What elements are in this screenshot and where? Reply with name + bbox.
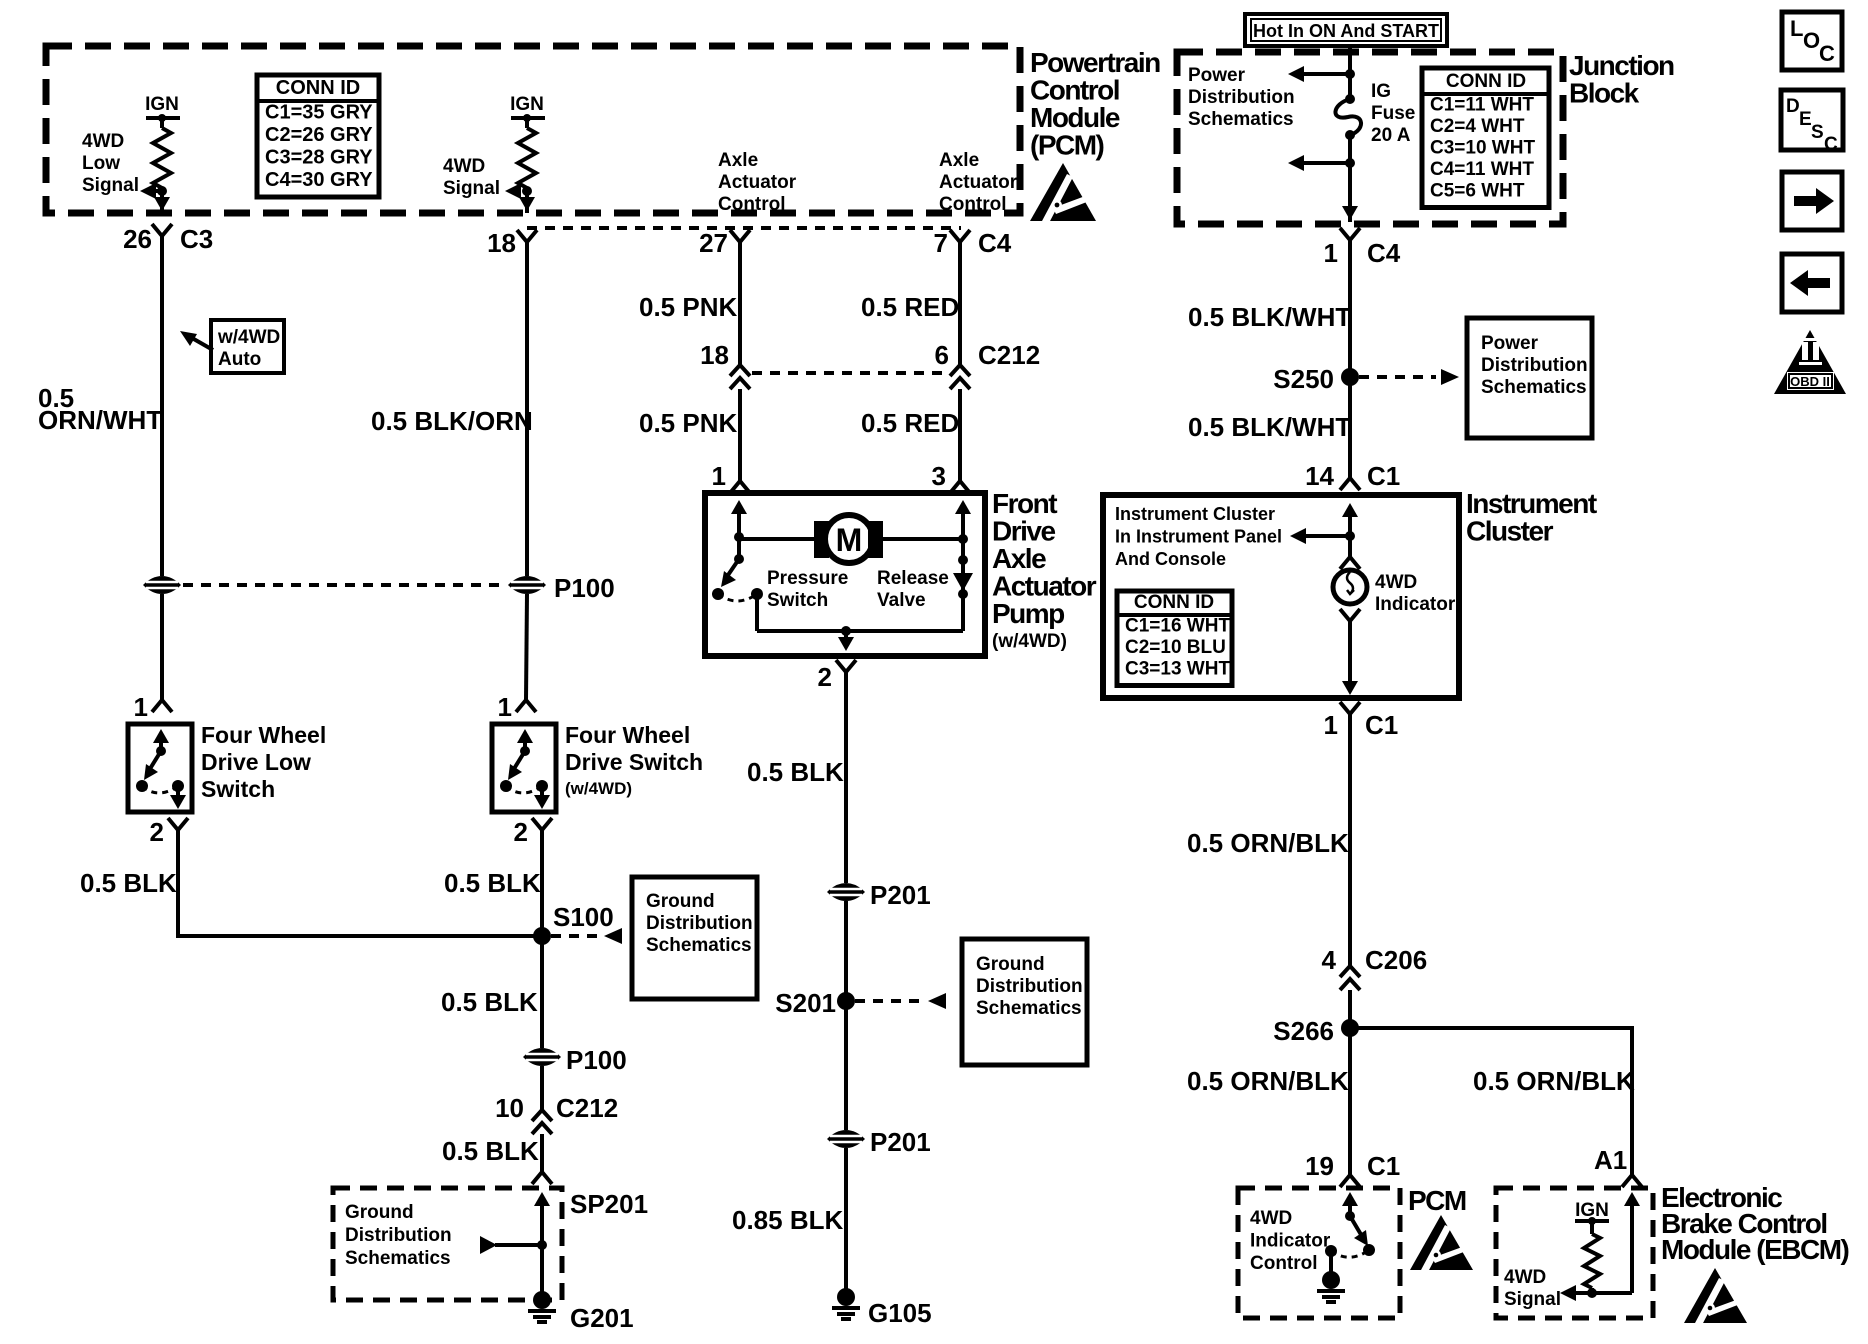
svg-text:Axle: Axle [718, 150, 758, 171]
icon arrow-right box [1782, 172, 1842, 230]
ground G201 [533, 1291, 551, 1309]
table CONN ID (Junction Block) [1422, 68, 1549, 208]
wire S266 branch to EBCM A1 [1350, 1028, 1632, 1175]
svg-text:Fuse: Fuse [1371, 103, 1415, 124]
svg-text:Control: Control [1250, 1253, 1318, 1274]
resistor 4WD Signal pull-up (EBCM) [1590, 1221, 1594, 1234]
svg-text:S: S [1811, 122, 1824, 143]
splice S201 [837, 992, 855, 1010]
wire 4WD Signal arrow (EBCM) [1560, 1285, 1576, 1301]
svg-text:Four Wheel: Four Wheel [565, 722, 690, 748]
pin 7 C4 connector [950, 230, 970, 242]
svg-text:Block: Block [1569, 78, 1640, 109]
svg-text:Actuator: Actuator [718, 172, 797, 193]
module Junction Block dashed box [1177, 52, 1563, 224]
wire C206 to S266 [1348, 990, 1352, 1175]
svg-text:1: 1 [1324, 710, 1338, 740]
module Instrument Cluster box [1103, 495, 1459, 698]
wire branch arrow upper [1345, 69, 1355, 79]
connector internal (cluster) [1340, 557, 1360, 569]
wire cluster down-arrow to pin 1 [1348, 675, 1352, 689]
svg-text:Schematics: Schematics [345, 1248, 451, 1269]
svg-text:2: 2 [818, 662, 832, 692]
svg-text:w/4WD: w/4WD [217, 327, 280, 348]
wire 0.5 BLK pump to P201 [844, 672, 848, 883]
svg-text:(w/4WD): (w/4WD) [565, 779, 632, 798]
svg-text:(w/4WD): (w/4WD) [992, 631, 1067, 652]
module EBCM dashed box [1496, 1188, 1653, 1318]
svg-text:0.5 PNK: 0.5 PNK [639, 408, 737, 438]
wire S250 dashed reference arrow [1359, 375, 1436, 379]
svg-text:Low: Low [82, 153, 120, 174]
svg-text:1: 1 [712, 461, 726, 491]
wire 0.5 ORN/WHT pin 26 to P100 [160, 236, 164, 576]
icon arrow-left box [1782, 254, 1842, 312]
svg-text:Distribution: Distribution [976, 976, 1083, 997]
svg-text:C3=28 GRY: C3=28 GRY [265, 147, 373, 169]
wire P100 to switch pin 1 (right) [526, 594, 527, 700]
svg-text:1: 1 [134, 692, 148, 722]
svg-text:S266: S266 [1273, 1016, 1334, 1046]
svg-text:Ground: Ground [646, 891, 715, 912]
svg-text:C2=10 BLU: C2=10 BLU [1125, 637, 1226, 658]
svg-text:0.5 BLK/WHT: 0.5 BLK/WHT [1188, 412, 1351, 442]
wire resistor to pin 18 [525, 188, 529, 213]
pin 1 C1 connector (cluster) [1340, 702, 1360, 714]
svg-text:Module: Module [1030, 102, 1120, 133]
table CONN ID (cluster) [1117, 591, 1232, 686]
svg-text:3: 3 [932, 461, 946, 491]
svg-text:Auto: Auto [218, 349, 261, 370]
pin 27 connector [730, 230, 750, 242]
svg-text:Schematics: Schematics [976, 998, 1082, 1019]
icon OBD II triangle [1774, 330, 1846, 394]
lamp 4WD Indicator [1348, 569, 1352, 571]
svg-text:Drive Switch: Drive Switch [565, 749, 703, 775]
svg-text:19: 19 [1305, 1151, 1334, 1181]
wire 0.5 ORN/BLK cluster to C206 [1348, 714, 1352, 966]
wire 0.5 BLK switch 2 to S100 [178, 830, 535, 936]
svg-text:C: C [1819, 41, 1835, 66]
svg-text:C206: C206 [1365, 945, 1427, 975]
svg-text:C1=16 WHT: C1=16 WHT [1125, 616, 1230, 637]
svg-text:18: 18 [487, 228, 516, 258]
svg-text:4: 4 [1322, 945, 1337, 975]
svg-text:1: 1 [1324, 238, 1338, 268]
svg-text:C3=13 WHT: C3=13 WHT [1125, 659, 1230, 680]
wire resistor to pin 26 [160, 188, 164, 213]
wire 0.5 RED C212 to pump pin 3 [958, 389, 962, 481]
svg-text:27: 27 [699, 228, 728, 258]
svg-text:4WD: 4WD [1504, 1267, 1546, 1288]
wire P100 dashed pair link [183, 583, 506, 587]
svg-text:P201: P201 [870, 1127, 931, 1157]
module Front Drive Axle Actuator Pump box [705, 493, 985, 656]
module PCM (Powertrain Control Module) dashed box [46, 46, 1020, 213]
resistor 4WD Signal pull-up [525, 118, 529, 128]
svg-text:PCM: PCM [1408, 1185, 1466, 1216]
wire S100 to P100 [540, 995, 544, 1048]
svg-text:Axle: Axle [939, 150, 979, 171]
module PCM (4WD Indicator Control) dashed box [1238, 1188, 1400, 1318]
svg-text:C4: C4 [1367, 238, 1401, 268]
svg-text:C2=4 WHT: C2=4 WHT [1430, 116, 1525, 137]
node IGN (left, pin 26 circuit) [146, 116, 180, 120]
svg-text:4WD: 4WD [1375, 572, 1417, 593]
svg-text:A1: A1 [1594, 1145, 1627, 1175]
svg-text:4WD: 4WD [443, 156, 485, 177]
wire 0.5 RED pin 7 to C212 [958, 242, 962, 365]
svg-text:0.5 ORN/BLK: 0.5 ORN/BLK [1473, 1066, 1635, 1096]
fuse IG Fuse 20 A [1345, 94, 1355, 104]
svg-text:M: M [836, 522, 863, 558]
wire cluster pin 14 internal [1348, 509, 1352, 523]
svg-text:Valve: Valve [877, 590, 926, 611]
wire P100 to switch pin 1 [160, 594, 164, 700]
wire pump internal bottom [757, 629, 963, 633]
svg-text:10: 10 [495, 1093, 524, 1123]
wire w/4WD Auto arrow [192, 338, 213, 350]
pin 19 C1 connector (PCM) [1340, 1175, 1360, 1187]
svg-text:Indicator: Indicator [1250, 1231, 1331, 1252]
svg-text:CONN ID: CONN ID [1134, 592, 1214, 613]
pin 14 C1 connector [1340, 478, 1360, 490]
svg-text:And Console: And Console [1115, 549, 1226, 569]
svg-text:Signal: Signal [443, 178, 500, 199]
splice S250 [1341, 368, 1359, 386]
svg-text:Drive Low: Drive Low [201, 749, 311, 775]
svg-text:D: D [1786, 96, 1800, 117]
wire C212 dashed link [752, 371, 948, 375]
connector SP201 splice pack [532, 1172, 552, 1184]
svg-text:G201: G201 [570, 1303, 634, 1333]
wire 0.5 BLK/WHT pin1 C4 to S250 [1348, 240, 1352, 478]
svg-text:4WD: 4WD [82, 131, 124, 152]
wire down-arrow into pin 18 [525, 193, 529, 205]
svg-text:C212: C212 [978, 340, 1040, 370]
svg-text:Control: Control [718, 194, 786, 215]
svg-text:Release: Release [877, 568, 949, 589]
svg-text:7: 7 [934, 228, 948, 258]
splice S266 [1341, 1019, 1359, 1037]
svg-text:S100: S100 [553, 902, 614, 932]
svg-text:P100: P100 [566, 1045, 627, 1075]
svg-text:0.5 BLK: 0.5 BLK [80, 868, 177, 898]
wire S100 dashed reference arrow [551, 934, 600, 938]
svg-text:Ground: Ground [976, 954, 1045, 975]
svg-text:Distribution: Distribution [1481, 355, 1588, 376]
svg-text:Axle: Axle [992, 543, 1046, 574]
svg-text:C1=35 GRY: C1=35 GRY [265, 102, 373, 124]
svg-text:4WD: 4WD [1250, 1208, 1292, 1229]
svg-text:ORN/WHT: ORN/WHT [38, 405, 162, 435]
svg-text:0.5 ORN/BLK: 0.5 ORN/BLK [1187, 828, 1349, 858]
svg-text:18: 18 [700, 340, 729, 370]
resistor 4WD Low pull-up [160, 118, 164, 128]
switch 4WD indicator driver (PCM internal) [1348, 1198, 1352, 1210]
pin 2 connector (4WD Switch) [532, 818, 552, 830]
connector P201 grommet lower [827, 1130, 865, 1148]
pin 26 C3 connector [152, 224, 172, 236]
svg-text:0.5 RED: 0.5 RED [861, 408, 959, 438]
svg-text:Front: Front [992, 488, 1057, 519]
svg-text:Distribution: Distribution [1188, 87, 1295, 108]
svg-text:C3: C3 [180, 224, 213, 254]
svg-text:Cluster: Cluster [1466, 516, 1554, 547]
svg-text:C1: C1 [1367, 461, 1400, 491]
svg-text:IG: IG [1371, 81, 1391, 102]
wire switch pin 2 to S100 [540, 830, 544, 995]
svg-text:0.5 BLK: 0.5 BLK [747, 757, 844, 787]
svg-text:Indicator: Indicator [1375, 594, 1456, 615]
connector 6 C212 [950, 365, 970, 376]
connector P201 grommet upper [827, 883, 865, 901]
svg-text:0.5 BLK: 0.5 BLK [441, 987, 538, 1017]
connector internal below lamp (cluster) [1340, 609, 1360, 621]
pin 2 connector (pump) [836, 660, 856, 672]
svg-text:P100: P100 [554, 573, 615, 603]
ESD symbol PCM [1030, 163, 1096, 221]
svg-text:Switch: Switch [201, 776, 275, 802]
svg-text:C4=11 WHT: C4=11 WHT [1430, 159, 1534, 180]
svg-text:G105: G105 [868, 1298, 932, 1328]
svg-text:Four Wheel: Four Wheel [201, 722, 326, 748]
switch Four Wheel Drive Low Switch [128, 724, 192, 812]
wire EBCM A1 internal [1630, 1198, 1634, 1210]
wire 0.5 BLK/ORN pin 18 to P100 [525, 242, 529, 576]
svg-text:Power: Power [1481, 333, 1539, 354]
svg-text:C: C [1824, 134, 1838, 155]
wire 0.5 PNK C212 to pump pin 1 [738, 389, 742, 481]
wire cluster internal left arrow [1296, 534, 1350, 538]
pin 1 connector (4WD Low Switch) [152, 700, 172, 712]
svg-text:CONN ID: CONN ID [1446, 71, 1526, 92]
svg-text:Actuator: Actuator [939, 172, 1018, 193]
wire C212 to SP201 [540, 1134, 544, 1172]
ESD symbol PCM bottom [1410, 1215, 1473, 1270]
svg-text:0.5 BLK/ORN: 0.5 BLK/ORN [371, 406, 533, 436]
svg-text:Instrument: Instrument [1466, 488, 1597, 519]
svg-text:Signal: Signal [1504, 1289, 1561, 1310]
svg-text:Module (EBCM): Module (EBCM) [1661, 1234, 1849, 1265]
label w/4WD Auto callout box [211, 320, 284, 373]
wire pump up-arrow pin 3 [961, 506, 965, 520]
wire P201 to S201 [844, 901, 848, 1130]
svg-text:C1: C1 [1367, 1151, 1400, 1181]
svg-text:0.5 PNK: 0.5 PNK [639, 292, 737, 322]
pin 1 connector (4WD Switch) [516, 700, 536, 712]
wire 0.85 BLK P201 to G105 [844, 1148, 848, 1292]
svg-text:0.5 BLK: 0.5 BLK [444, 868, 541, 898]
svg-text:Pressure: Pressure [767, 568, 848, 589]
wire down-arrow into pin 26 [160, 193, 164, 205]
pin 3 connector (pump) [950, 481, 970, 493]
connector 18 (C212) [730, 365, 750, 376]
svg-text:C4: C4 [978, 228, 1012, 258]
svg-text:Schematics: Schematics [646, 935, 752, 956]
svg-text:0.5 RED: 0.5 RED [861, 292, 959, 322]
svg-text:SP201: SP201 [570, 1189, 648, 1219]
svg-text:Distribution: Distribution [345, 1225, 452, 1246]
icon DESC box [1781, 90, 1843, 150]
ground G105 [837, 1288, 855, 1306]
svg-text:L: L [1790, 16, 1803, 41]
wire fuse to pin 1 C4 [1348, 135, 1352, 222]
svg-text:(PCM): (PCM) [1030, 130, 1104, 161]
wire SP201 internal branch [480, 1236, 497, 1254]
svg-text:Distribution: Distribution [646, 913, 753, 934]
svg-text:Pump: Pump [992, 598, 1064, 629]
svg-text:C1: C1 [1365, 710, 1398, 740]
wire SP201 arrow into box [540, 1198, 544, 1210]
pressure switch (pump) [734, 554, 744, 564]
svg-text:S250: S250 [1273, 364, 1334, 394]
svg-text:Hot In ON And START: Hot In ON And START [1253, 21, 1439, 41]
connector P100 grommet left [143, 576, 181, 594]
wire S201 dashed reference arrow [855, 999, 926, 1003]
svg-text:IGN: IGN [510, 94, 544, 115]
pin 1 C4 connector [1340, 228, 1360, 240]
svg-text:20 A: 20 A [1371, 125, 1411, 146]
svg-text:In Instrument Panel: In Instrument Panel [1115, 527, 1282, 547]
svg-text:C3=10 WHT: C3=10 WHT [1430, 138, 1535, 159]
label Hot In ON And START [1245, 14, 1447, 46]
svg-text:Junction: Junction [1569, 50, 1674, 81]
table CONN ID (PCM) [257, 75, 379, 197]
pin A1 connector (EBCM) [1622, 1175, 1642, 1187]
wire 4WD Low Signal arrow [157, 186, 167, 196]
ground (PCM internal) [1322, 1271, 1340, 1289]
pin 18 connector [517, 230, 537, 242]
svg-text:Powertrain: Powertrain [1030, 47, 1160, 78]
wire 4WD Signal arrow [522, 186, 532, 196]
svg-text:Actuator: Actuator [992, 571, 1097, 602]
svg-text:C2=26 GRY: C2=26 GRY [265, 124, 373, 146]
svg-text:S201: S201 [775, 988, 836, 1018]
svg-text:P201: P201 [870, 880, 931, 910]
connector 10 C212 [532, 1110, 552, 1121]
wire down-arrow to pin 1 [1348, 204, 1352, 214]
module Ground Distribution Schematics dashed box (SP201) [333, 1188, 562, 1300]
svg-text:2: 2 [514, 817, 528, 847]
svg-text:0.85 BLK: 0.85 BLK [732, 1205, 843, 1235]
wire feed from Hot into junction block [1348, 46, 1352, 99]
svg-text:Control: Control [1030, 75, 1119, 106]
svg-text:C5=6 WHT: C5=6 WHT [1430, 181, 1525, 202]
svg-text:0.5 ORN/BLK: 0.5 ORN/BLK [1187, 1066, 1349, 1096]
connector 4 C206 [1340, 966, 1360, 977]
wire dashed connector group line below PCM [527, 226, 961, 230]
svg-text:C4=30 GRY: C4=30 GRY [265, 169, 373, 191]
splice S100 [533, 927, 551, 945]
svg-text:1: 1 [498, 692, 512, 722]
svg-text:IGN: IGN [145, 94, 179, 115]
svg-text:2: 2 [150, 817, 164, 847]
svg-text:Schematics: Schematics [1188, 109, 1294, 130]
wire branch arrow lower [1345, 158, 1355, 168]
switch Four Wheel Drive Switch (w/4WD) [492, 724, 556, 812]
svg-text:14: 14 [1305, 461, 1334, 491]
svg-text:Drive: Drive [992, 516, 1055, 547]
wire 0.5 PNK pin 27 to C212 [738, 242, 742, 365]
node IGN (right, pin 18 circuit) [511, 116, 545, 120]
svg-text:26: 26 [123, 224, 152, 254]
label Power Distribution Schematics box (S250) [1467, 318, 1592, 438]
label Ground Distribution Schematics box (S100) [632, 877, 757, 999]
svg-text:O: O [1803, 28, 1820, 53]
svg-text:C212: C212 [556, 1093, 618, 1123]
svg-text:Instrument Cluster: Instrument Cluster [1115, 504, 1275, 524]
ESD symbol EBCM [1684, 1268, 1747, 1323]
svg-text:0.5 BLK: 0.5 BLK [442, 1136, 539, 1166]
connector P100 grommet right [508, 576, 546, 594]
connector P100 grommet lower [523, 1048, 561, 1066]
release valve (pump) [961, 539, 965, 631]
svg-text:Control: Control [939, 194, 1007, 215]
pin 2 connector (4WD Low Switch) [168, 818, 188, 830]
wire P100 to C212 [540, 1066, 544, 1110]
pin 1 connector (pump) [730, 481, 750, 493]
svg-text:C1=11 WHT: C1=11 WHT [1430, 95, 1534, 116]
svg-text:Schematics: Schematics [1481, 377, 1587, 398]
motor M pump motor [739, 537, 818, 541]
svg-text:E: E [1799, 109, 1812, 130]
svg-text:Power: Power [1188, 65, 1246, 86]
label Ground Distribution Schematics box (S201) [962, 939, 1087, 1065]
wire pump pin 1 internal [737, 506, 741, 520]
svg-text:0.5 BLK/WHT: 0.5 BLK/WHT [1188, 302, 1351, 332]
svg-text:OBD II: OBD II [1790, 374, 1830, 389]
svg-text:Ground: Ground [345, 1202, 414, 1223]
icon LOC box [1782, 12, 1842, 70]
svg-text:6: 6 [935, 340, 949, 370]
svg-text:Switch: Switch [767, 590, 828, 611]
svg-text:Signal: Signal [82, 175, 139, 196]
svg-text:CONN ID: CONN ID [276, 77, 360, 99]
